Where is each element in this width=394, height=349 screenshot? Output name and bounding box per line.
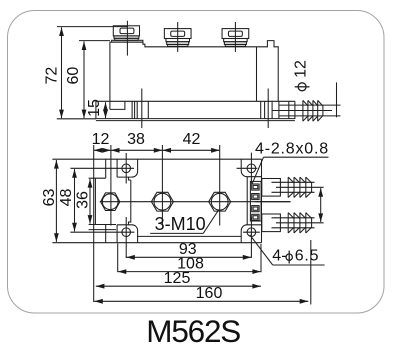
svg-text:125: 125	[164, 270, 191, 287]
terminal 3	[252, 206, 259, 212]
dim 48	[74, 169, 76, 231]
left edge stub top	[105, 159, 107, 178]
svg-text:72: 72	[44, 67, 61, 85]
hex nut 1	[101, 193, 120, 211]
plan body right edge between tabs	[246, 177, 248, 225]
module body outline (side view)	[110, 41, 278, 110]
plan view bottom edge	[52, 242, 261, 244]
dim 125	[96, 285, 261, 287]
ext 117.7	[117, 244, 119, 273]
svg-text:60: 60	[65, 67, 82, 85]
extension line nut1	[110, 145, 112, 226]
stud neck lines	[279, 104, 341, 106]
svg-text:6.5: 6.5	[295, 248, 320, 265]
fast-on terminal block	[250, 181, 261, 221]
extension line nut2	[161, 145, 163, 226]
nut connecting line	[100, 201, 291, 203]
svg-text:M562S: M562S	[146, 313, 240, 349]
barb stud collar (side view)	[271, 101, 273, 119]
hole bottom-right	[247, 228, 256, 237]
top-right tab	[241, 159, 261, 177]
svg-text:42: 42	[183, 131, 201, 148]
dim 72 extension line	[57, 26, 128, 28]
bottom-left tab	[117, 225, 138, 243]
dim phi12 line	[336, 82, 338, 117]
body bottom-left skirt notch	[110, 101, 125, 109]
top dim line 12	[94, 149, 111, 151]
plan view top edge	[52, 158, 261, 160]
hole top-left	[122, 164, 131, 173]
stud spacing dim	[320, 188, 322, 222]
svg-text:3-M10: 3-M10	[155, 214, 206, 234]
plan centerline right	[255, 201, 291, 203]
terminal 1	[252, 184, 259, 190]
bolt terminal 3	[222, 22, 249, 52]
svg-text:4-: 4-	[272, 248, 286, 265]
dim 15	[105, 102, 107, 118]
baseplate (side view)	[96, 100, 295, 102]
plan inner bottom line	[137, 235, 241, 237]
ext 160 right	[310, 240, 312, 305]
dim 63	[55, 160, 57, 242]
bottom-right tab	[241, 225, 261, 243]
dim 36	[89, 179, 91, 224]
left block edge	[94, 178, 96, 224]
svg-text:12: 12	[92, 131, 110, 148]
dim 60	[83, 41, 85, 118]
left block bottom	[89, 224, 116, 226]
hole top-left crossline + 48 ext	[70, 167, 134, 169]
plan right edge	[261, 159, 263, 243]
hole bottom-left crossline + 48 ext	[70, 231, 134, 233]
left skirt line	[89, 229, 116, 231]
dim 160	[94, 300, 308, 302]
svg-text:160: 160	[196, 285, 223, 302]
top-left tab notch	[129, 177, 131, 180]
hole bottom-left	[122, 228, 131, 237]
svg-text:38: 38	[127, 131, 145, 148]
hole top-right	[247, 164, 256, 173]
barb stud B (plan)	[262, 213, 324, 233]
left edge stub bottom	[105, 225, 107, 243]
stud centerline	[272, 110, 332, 112]
svg-text:48: 48	[58, 189, 75, 207]
block right edge	[130, 180, 132, 223]
svg-text:4-2.8x0.8: 4-2.8x0.8	[255, 141, 329, 158]
extension line left edge (long)	[93, 145, 95, 302]
terminal 4	[252, 214, 259, 220]
hex nut 3	[209, 192, 231, 211]
top dim line 38	[111, 149, 162, 151]
bolt terminal 1	[112, 21, 143, 56]
bolt terminal 2	[164, 22, 191, 52]
dim 108	[118, 271, 261, 273]
ext 108 right	[260, 244, 262, 272]
right hole centerline	[267, 89, 269, 129]
left hole centerline	[141, 89, 143, 129]
top dim line 42	[162, 149, 219, 151]
dim 60 extension line	[79, 40, 110, 42]
svg-text:12: 12	[292, 60, 309, 78]
stud barbs (side view)	[303, 100, 308, 121]
top-left tab	[117, 159, 138, 177]
right mounting hole section lines	[260, 101, 262, 119]
dim 93	[126, 256, 251, 258]
terminal 2	[252, 194, 259, 200]
dim 72	[61, 27, 63, 118]
bottom-left tab notch	[129, 222, 131, 225]
bottom extension line of side view	[57, 118, 96, 120]
hex nut 2	[151, 192, 173, 211]
left mounting hole section lines	[131, 101, 133, 119]
left block top	[89, 177, 106, 179]
extension line nut3	[219, 145, 221, 226]
body internal divider	[256, 47, 258, 102]
barb stud A (plan)	[262, 177, 324, 197]
svg-text:63: 63	[41, 189, 58, 207]
svg-text:36: 36	[75, 191, 92, 209]
